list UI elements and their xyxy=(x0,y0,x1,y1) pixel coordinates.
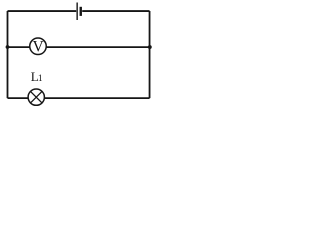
svg-text:V: V xyxy=(33,39,44,56)
svg-text:1: 1 xyxy=(38,74,43,84)
